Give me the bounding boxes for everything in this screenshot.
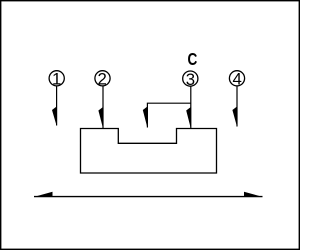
svg-text:2: 2 [98, 70, 107, 89]
svg-text:1: 1 [52, 70, 61, 89]
svg-text:C: C [188, 49, 198, 69]
svg-text:3: 3 [186, 70, 195, 89]
svg-text:4: 4 [233, 70, 242, 89]
